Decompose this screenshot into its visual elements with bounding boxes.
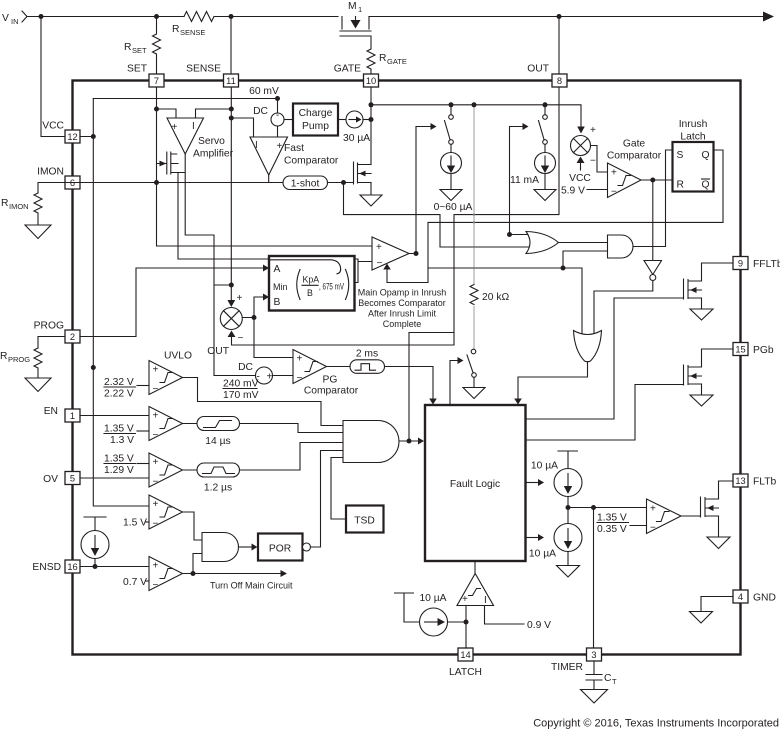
wire 11mA switch control: [510, 127, 523, 235]
arrowhead A input: [263, 265, 269, 272]
wire fault logic to latch comparator: [474, 561, 476, 573]
wire ENSD comp output turn off main circuit: [183, 573, 281, 575]
svg-text:LATCH: LATCH: [449, 667, 482, 678]
switch inrush current source: [445, 105, 454, 153]
comparator ENSD: [149, 557, 183, 592]
svg-text:−: −: [297, 373, 303, 384]
comparator UVLO: [149, 351, 192, 396]
svg-text:60 mV: 60 mV: [249, 86, 279, 97]
svg-text:+: +: [153, 499, 159, 510]
svg-text:−: −: [377, 258, 383, 269]
svg-text:SET: SET: [132, 46, 147, 55]
svg-text:Min: Min: [273, 282, 288, 292]
svg-text:M: M: [348, 1, 357, 12]
svg-text:A: A: [274, 264, 281, 275]
current source 10uA latch: [395, 593, 467, 636]
wire gate comparator output to latch R: [641, 179, 673, 181]
svg-text:-: -: [276, 110, 279, 121]
svg-text:1.2 µs: 1.2 µs: [204, 483, 232, 494]
svg-text:1.3 V: 1.3 V: [110, 435, 134, 446]
wire OR2 output to fault logic: [518, 362, 588, 399]
svg-text:+: +: [277, 141, 283, 152]
wire timer drop: [593, 508, 595, 649]
wire 1.5V comp output to AND2: [183, 512, 203, 540]
svg-text:5: 5: [70, 474, 75, 484]
svg-text:I: I: [255, 140, 258, 151]
comparator gate comparator: [607, 139, 662, 198]
resistor RSENSE: [172, 12, 214, 38]
wire AND2 output to POR: [239, 546, 252, 548]
comparator 1.5V: [149, 495, 183, 530]
wire x214 taps multiplier top: [214, 284, 231, 286]
wire EN pin to comparator: [80, 415, 149, 417]
wire ENSD pin to comparator: [80, 566, 149, 568]
wire servo plus input: [157, 109, 177, 118]
svg-text:1.35 V: 1.35 V: [597, 513, 627, 524]
svg-text:FLTb: FLTb: [753, 477, 777, 488]
pin 7 SET: [127, 64, 164, 88]
svg-text:V: V: [2, 13, 9, 24]
svg-text:SENSE: SENSE: [186, 64, 221, 75]
block min KpA/B 675mV: [269, 256, 355, 311]
and-gate main enable AND: [343, 421, 399, 463]
wire multiplier output to B input: [254, 297, 263, 318]
block 2 ms deglitch: [327, 349, 385, 374]
svg-text:+: +: [153, 365, 159, 376]
svg-text:DC: DC: [238, 362, 253, 373]
svg-text:3: 3: [591, 650, 596, 660]
wire AND output to fault logic: [399, 440, 418, 442]
wire UVLO minus stub: [137, 385, 149, 387]
svg-text:+: +: [462, 594, 468, 605]
svg-text:5.9 V: 5.9 V: [561, 186, 585, 197]
node 0.7V: [123, 577, 149, 588]
svg-text:20 kΩ: 20 kΩ: [482, 292, 509, 303]
wire OUT sense branch to fault logic: [409, 333, 454, 442]
svg-text:I: I: [192, 121, 195, 132]
capacitor CT: [586, 661, 617, 690]
svg-text:EN: EN: [44, 406, 58, 417]
svg-text:ENSD: ENSD: [32, 562, 61, 573]
pin 3 TIMER: [551, 648, 602, 673]
svg-text:11: 11: [226, 76, 236, 86]
svg-text:POR: POR: [269, 544, 291, 555]
svg-text:1: 1: [358, 5, 362, 14]
block 14 us deglitch: [183, 417, 240, 448]
svg-text:0.35 V: 0.35 V: [597, 524, 627, 535]
svg-text:1.5 V: 1.5 V: [123, 518, 147, 529]
svg-text:−: −: [611, 187, 617, 198]
svg-text:B: B: [274, 297, 281, 308]
svg-text:−: −: [238, 333, 244, 344]
IC boundary box: [73, 81, 741, 655]
svg-text:−: −: [153, 430, 159, 441]
svg-text:−: −: [590, 156, 596, 167]
wire fault logic to 10uA source B: [526, 537, 539, 539]
svg-text:R: R: [677, 180, 684, 191]
svg-text:VCC: VCC: [42, 121, 64, 132]
svg-text:−: −: [153, 384, 159, 395]
block charge pump: [284, 104, 338, 136]
svg-text:TSD: TSD: [354, 516, 375, 527]
current source 10uA pulldown: [529, 524, 582, 578]
block inrush latch: [673, 119, 714, 192]
wire VIN to VCC pin 12: [41, 17, 65, 137]
svg-text:+: +: [650, 504, 656, 515]
wire 60mV reference line: [93, 98, 277, 100]
wire fault logic to PGb FET gate: [526, 385, 684, 441]
op-amp servo amplifier: [167, 118, 234, 160]
block 1-shot: [283, 176, 354, 190]
svg-text:0.7 V: 0.7 V: [123, 577, 147, 588]
svg-text:VCC: VCC: [569, 173, 591, 184]
note main opamp text: [358, 288, 447, 330]
svg-text:Fault Logic: Fault Logic: [450, 479, 500, 490]
comparator PG comparator: [293, 350, 359, 397]
svg-text:DC: DC: [253, 106, 268, 117]
svg-text:12: 12: [67, 132, 77, 142]
svg-text:+: +: [297, 354, 303, 365]
svg-text:14 µs: 14 µs: [205, 436, 230, 447]
svg-text:Pump: Pump: [302, 121, 329, 132]
pin 12 VCC: [42, 121, 80, 144]
wire servo output to DC offset via x214: [178, 154, 256, 376]
svg-text:−: −: [153, 519, 159, 530]
svg-text:Servo: Servo: [198, 136, 225, 147]
svg-text:10 µA: 10 µA: [419, 593, 446, 604]
op-amp main opamp: [372, 237, 409, 270]
wire SENSE pin down to multiplier: [230, 87, 232, 300]
wire servo FET source to min box right side: [178, 173, 372, 283]
svg-text:TIMER: TIMER: [551, 662, 583, 673]
svg-text:Copyright © 2016, Texas Instru: Copyright © 2016, Texas Instruments Inco…: [533, 718, 779, 730]
svg-text:B: B: [307, 288, 313, 298]
svg-text:2.32 V: 2.32 V: [104, 377, 134, 388]
svg-text:1-shot: 1-shot: [291, 179, 320, 190]
or-gate OR2: [574, 331, 602, 362]
svg-text:OUT: OUT: [527, 64, 549, 75]
svg-text:16: 16: [67, 562, 77, 572]
svg-text:SENSE: SENSE: [180, 28, 205, 37]
block POR: [258, 451, 343, 561]
wire SENSE pin drop: [230, 17, 232, 75]
wire OR1 output: [559, 242, 608, 244]
svg-text:Becomes Comparator: Becomes Comparator: [358, 298, 446, 308]
svg-text:Gate: Gate: [623, 139, 646, 150]
svg-text:Comparator: Comparator: [607, 151, 662, 162]
svg-text:T: T: [612, 677, 617, 686]
svg-text:IMON: IMON: [37, 167, 64, 178]
svg-text:OUT: OUT: [207, 346, 229, 357]
ground RPROG: [25, 378, 51, 392]
wire UVLO output to AND: [183, 378, 344, 426]
pin 8 OUT: [527, 64, 567, 88]
pin 14 LATCH: [449, 648, 482, 678]
comparator latch (points up): [457, 574, 494, 607]
svg-text:Main Opamp in Inrush: Main Opamp in Inrush: [358, 288, 447, 298]
svg-text:8: 8: [557, 76, 562, 86]
svg-text:30 µA: 30 µA: [343, 133, 370, 144]
svg-text:Q: Q: [701, 180, 709, 191]
svg-text:GATE: GATE: [334, 64, 361, 75]
node 1.35V 1.3V: [104, 424, 149, 447]
wire OUT pin sense to multiplier minus: [232, 87, 560, 345]
svg-text:PGb: PGb: [753, 345, 774, 356]
wire latch Q return to opamp mode arrow: [387, 150, 723, 283]
pin 10 GATE: [334, 64, 379, 88]
pin 1 EN: [44, 406, 80, 422]
svg-text:+: +: [376, 242, 382, 253]
svg-text:PROG: PROG: [34, 321, 64, 332]
svg-text:FFLTb: FFLTb: [753, 259, 780, 270]
wire PROG pin to A input: [80, 268, 263, 337]
svg-text:KpA: KpA: [303, 275, 320, 285]
wire fast comparator I input: [231, 118, 253, 137]
wire latch comp plus input to LATCH pin: [465, 606, 467, 649]
svg-text:PG: PG: [323, 375, 338, 386]
wire PROG pin to RPROG: [38, 337, 65, 349]
svg-text:I: I: [484, 595, 487, 606]
svg-text:2.22 V: 2.22 V: [104, 389, 134, 400]
wire multiplier to gate comparator plus: [591, 146, 608, 173]
current source 10uA pullup: [531, 451, 582, 524]
wire 10uA node to FLT comparator: [568, 507, 647, 509]
svg-text:0~60 µA: 0~60 µA: [434, 202, 473, 213]
wire 1-shot node to OR gate: [344, 183, 530, 248]
svg-text:Fast: Fast: [284, 143, 304, 154]
transistor FLTb FET: [701, 481, 734, 549]
wire IMON pin to RIMON: [38, 183, 65, 194]
resistor RSET: [124, 17, 161, 75]
wire SET pin to servo and main opamp: [157, 87, 373, 246]
wire IMON internal line: [65, 182, 344, 184]
block 1.2 us deglitch: [183, 463, 240, 494]
wire servo I input: [196, 109, 232, 118]
svg-text:Comparator: Comparator: [284, 156, 339, 167]
svg-text:9: 9: [738, 259, 743, 269]
svg-text:R: R: [1, 198, 8, 209]
wire mode line to OR2: [428, 268, 582, 334]
wire GATE pin drop: [370, 87, 372, 165]
wire fault logic to FFLTb FET gate: [526, 298, 684, 419]
svg-text:−: −: [650, 523, 656, 534]
wire AND1 output to latch S: [633, 150, 673, 247]
inverter fault flag: [594, 180, 662, 335]
switch 20k to ground: [463, 349, 485, 398]
wire top rail VIN to M1: [27, 16, 338, 18]
node 1.35V 1.29V: [104, 454, 149, 477]
ground GND pin: [701, 597, 733, 612]
svg-text:IMON: IMON: [9, 202, 29, 211]
svg-text:R: R: [0, 351, 7, 362]
svg-text:Amplifier: Amplifier: [193, 149, 234, 160]
svg-text:1.29 V: 1.29 V: [104, 465, 134, 476]
wire multiplier output to PG comparator plus: [242, 318, 293, 358]
svg-text:Latch: Latch: [680, 132, 705, 143]
transistor FFLTb FET: [684, 263, 734, 320]
node 2.32V 2.22V: [104, 377, 136, 400]
svg-text:Q: Q: [701, 150, 709, 161]
current source DC offset for PG comparator: [238, 362, 293, 384]
svg-text:240 mV: 240 mV: [223, 379, 259, 390]
svg-text:2: 2: [70, 332, 75, 342]
svg-text:15: 15: [735, 345, 745, 355]
svg-text:4: 4: [738, 592, 743, 602]
pin 9 FFLTb: [733, 257, 780, 271]
switch 11mA source: [539, 105, 548, 153]
svg-text:10 µA: 10 µA: [531, 461, 558, 472]
wire VCC internal rail: [80, 99, 149, 507]
svg-text:R: R: [124, 42, 131, 53]
svg-text:10: 10: [366, 76, 376, 86]
pin 4 GND: [733, 590, 776, 604]
comparator FLT: [647, 499, 682, 534]
svg-text:−: −: [153, 477, 159, 488]
wire OUT pin drop: [558, 17, 560, 75]
svg-text:GND: GND: [753, 593, 776, 604]
wire main opamp output to inrush switch: [409, 127, 431, 254]
transistor servo FET: [157, 152, 179, 174]
resistor RIMON: [1, 193, 42, 225]
node VIN input: [2, 11, 27, 26]
svg-text:After Inrush Limit: After Inrush Limit: [368, 309, 437, 319]
svg-text:1.35 V: 1.35 V: [104, 454, 134, 465]
svg-text:SET: SET: [127, 64, 148, 75]
resistor 20 kOhm: [470, 285, 509, 305]
wire switch control from fault logic: [450, 361, 458, 405]
current source ENSD pullup: [81, 517, 109, 567]
svg-text:, 675 mV: , 675 mV: [319, 282, 344, 292]
current source 30 uA: [338, 111, 371, 144]
wire fault logic to 10uA source A: [526, 482, 539, 484]
svg-text:14: 14: [460, 650, 470, 660]
arrowhead B input: [263, 294, 269, 301]
svg-text:Complete: Complete: [383, 319, 422, 329]
wire OV pin to comparator: [80, 477, 149, 479]
resistor RPROG: [0, 348, 42, 378]
svg-text:+: +: [153, 411, 159, 422]
pin 13 FLTb: [733, 474, 777, 488]
wire top rail M1 to output arrow: [369, 16, 763, 18]
svg-text:IN: IN: [11, 17, 19, 26]
pin 5 OV: [43, 472, 80, 486]
svg-text:C: C: [604, 673, 612, 684]
comparator fast comparator: [250, 137, 339, 175]
svg-text:UVLO: UVLO: [164, 351, 192, 362]
pin 11 SENSE: [186, 64, 238, 88]
svg-text:R: R: [172, 24, 179, 35]
wire GATE internal feed to VCC multiplier: [371, 105, 581, 127]
svg-text:+: +: [153, 561, 159, 572]
svg-text:+: +: [611, 168, 617, 179]
comparator OV: [149, 453, 183, 488]
svg-text:Charge: Charge: [299, 108, 333, 119]
wire FLT comparator output: [681, 515, 701, 517]
svg-text:S: S: [677, 150, 684, 161]
current source 11 mA: [510, 153, 556, 201]
pin 16 ENSD: [32, 560, 80, 573]
multiplier current sense: [207, 293, 243, 357]
svg-text:Comparator: Comparator: [304, 386, 359, 397]
transistor gate pulldown FET: [354, 162, 372, 195]
current source 0~60 uA: [434, 153, 473, 214]
svg-text:2 ms: 2 ms: [356, 349, 378, 360]
wire ENSD comp to AND2: [193, 554, 202, 574]
wire 2ms to fault logic: [385, 367, 434, 399]
svg-text:OV: OV: [43, 474, 58, 485]
comparator EN: [149, 407, 183, 442]
svg-text:R: R: [379, 53, 386, 64]
svg-text:GATE: GATE: [387, 57, 407, 66]
wire 14us output to AND: [240, 424, 344, 433]
and-gate AND1: [608, 235, 634, 258]
or-gate OR1: [526, 232, 559, 254]
pin 2 PROG: [34, 321, 80, 344]
svg-text:−: −: [153, 580, 159, 591]
svg-text:7: 7: [154, 76, 159, 86]
node 1.5V: [123, 518, 149, 529]
svg-text:170 mV: 170 mV: [223, 390, 259, 401]
pin 6 IMON: [37, 167, 80, 190]
wire latch comp reference 0.9V: [485, 606, 525, 625]
ground RIMON: [25, 225, 51, 239]
transistor PGb FET: [684, 349, 734, 406]
ground gate pulldown: [360, 195, 382, 206]
svg-text:1: 1: [70, 411, 75, 421]
ground timer: [581, 690, 608, 704]
current source DC bias for fast comparator: [253, 99, 284, 138]
svg-text:PROG: PROG: [8, 355, 30, 364]
pin 15 PGb: [733, 343, 774, 357]
svg-text:+: +: [267, 372, 273, 383]
node 240mV 170mV thresholds: [223, 379, 259, 402]
svg-text:Turn Off Main Circuit: Turn Off Main Circuit: [210, 581, 293, 591]
svg-text:11 mA: 11 mA: [510, 175, 539, 186]
svg-text:13: 13: [735, 476, 745, 486]
wire 1.2us output to AND: [240, 443, 344, 471]
svg-text:0.9 V: 0.9 V: [527, 620, 551, 631]
wire 5.9V to gate comparator minus: [587, 189, 608, 191]
wire OR1 top input: [510, 234, 529, 236]
wire branch to AND1 second input: [563, 251, 608, 268]
svg-text:+: +: [172, 122, 178, 133]
block TSD: [331, 458, 384, 533]
svg-text:+: +: [237, 293, 243, 304]
and-gate AND2 shutdown: [202, 533, 239, 562]
block fault logic: [425, 405, 526, 561]
resistor RGATE: [367, 36, 407, 74]
svg-text:10 µA: 10 µA: [529, 549, 556, 560]
multiplier VCC gate headroom: [561, 125, 596, 197]
svg-text:+: +: [153, 457, 159, 468]
wire 20k bleed line: [473, 105, 475, 349]
wire fast comparator output: [269, 175, 283, 183]
svg-text:1.35 V: 1.35 V: [104, 424, 134, 435]
transistor M1: [340, 1, 371, 36]
svg-text:+: +: [590, 125, 596, 136]
svg-text:Inrush: Inrush: [679, 119, 708, 130]
node 1.35V 0.35V: [597, 513, 647, 536]
